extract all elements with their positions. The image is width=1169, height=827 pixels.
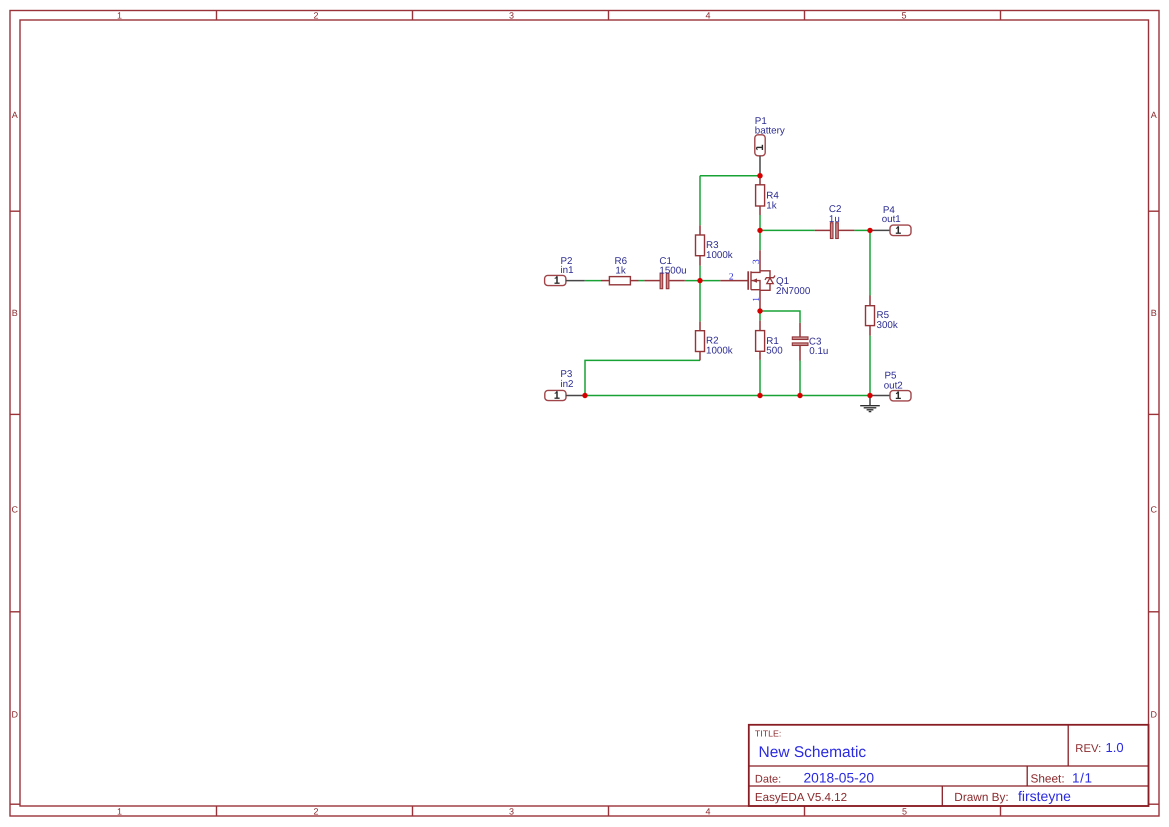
svg-text:in1: in1 xyxy=(561,265,574,276)
capacitor C3 xyxy=(792,323,828,361)
node junction C2/P4/R5 xyxy=(867,228,872,233)
svg-text:4: 4 xyxy=(705,806,710,816)
svg-text:300k: 300k xyxy=(877,320,898,331)
svg-text:B: B xyxy=(12,308,18,318)
svg-text:TITLE:: TITLE: xyxy=(755,729,781,739)
wire xyxy=(799,361,801,396)
resistor R3 xyxy=(696,225,733,265)
svg-text:C: C xyxy=(1150,505,1157,515)
title block xyxy=(749,725,1149,806)
svg-text:1: 1 xyxy=(752,297,762,302)
wire xyxy=(639,280,645,282)
svg-text:D: D xyxy=(1150,710,1157,720)
svg-text:C: C xyxy=(11,505,18,515)
svg-text:1500u: 1500u xyxy=(659,266,686,277)
svg-text:2: 2 xyxy=(313,806,318,816)
resistor R2 xyxy=(696,322,733,361)
svg-text:EasyEDA V5.4.12: EasyEDA V5.4.12 xyxy=(755,791,847,804)
wire net from P1 pin to R4 top and left corner xyxy=(700,175,760,177)
svg-text:500: 500 xyxy=(766,346,783,357)
svg-text:firsteyne: firsteyne xyxy=(1018,788,1071,804)
capacitor C1 xyxy=(644,256,686,289)
wire xyxy=(759,360,761,396)
svg-text:1000k: 1000k xyxy=(706,250,733,261)
svg-text:out1: out1 xyxy=(882,214,901,225)
ground xyxy=(860,396,880,412)
svg-text:B: B xyxy=(1151,308,1157,318)
wire xyxy=(585,280,601,282)
wire xyxy=(685,280,721,282)
node junction P3/rail xyxy=(582,393,587,398)
wire xyxy=(759,311,761,321)
svg-text:Drawn By:: Drawn By: xyxy=(954,790,1008,804)
node junction R5/ground/P5 xyxy=(867,393,872,398)
svg-text:Sheet:: Sheet: xyxy=(1031,772,1065,786)
svg-text:1: 1 xyxy=(117,806,122,816)
frame ruler numbers bottom xyxy=(117,806,907,816)
node junction R4/C2/drain xyxy=(757,228,762,233)
wire xyxy=(759,230,761,250)
wire xyxy=(869,336,871,396)
svg-text:1k: 1k xyxy=(766,201,776,212)
svg-text:3: 3 xyxy=(509,10,514,20)
svg-text:in2: in2 xyxy=(560,379,573,390)
svg-text:2N7000: 2N7000 xyxy=(776,286,811,297)
frame ruler numbers top xyxy=(117,10,907,20)
title block texts xyxy=(755,729,1124,804)
svg-text:3: 3 xyxy=(752,259,762,264)
svg-text:Date:: Date: xyxy=(755,774,781,786)
transistor Q1 2N7000 xyxy=(720,250,811,311)
node junction C1/R3/R2/gate xyxy=(697,278,702,283)
wire xyxy=(760,311,800,323)
wire bottom rail xyxy=(585,395,870,397)
svg-text:New Schematic: New Schematic xyxy=(759,744,867,761)
svg-text:5: 5 xyxy=(902,806,907,816)
frame ruler letters left xyxy=(11,110,18,720)
svg-text:1000k: 1000k xyxy=(706,346,733,357)
svg-text:1/1: 1/1 xyxy=(1072,771,1093,786)
resistor R5 xyxy=(866,296,898,336)
svg-text:2: 2 xyxy=(729,273,734,283)
svg-text:A: A xyxy=(12,110,18,120)
node junction C3/rail xyxy=(797,393,802,398)
svg-text:1u: 1u xyxy=(829,214,840,225)
svg-text:2018-05-20: 2018-05-20 xyxy=(804,771,875,786)
svg-text:1.0: 1.0 xyxy=(1106,740,1124,755)
node junction P1/R4/wire xyxy=(757,173,762,178)
wire xyxy=(854,229,870,231)
wire xyxy=(869,230,871,295)
wire xyxy=(699,176,701,226)
svg-text:4: 4 xyxy=(705,10,710,20)
svg-text:D: D xyxy=(11,710,18,720)
CIRCUIT xyxy=(545,116,911,412)
connector P3 in2 xyxy=(545,369,585,401)
connector P5 out2 xyxy=(870,371,911,401)
svg-text:1k: 1k xyxy=(615,266,625,277)
wire xyxy=(585,360,700,395)
resistor R1 xyxy=(756,321,784,360)
capacitor C2 xyxy=(815,204,855,239)
svg-text:1: 1 xyxy=(117,10,122,20)
svg-text:A: A xyxy=(1151,110,1157,120)
node junction source/R1/C3 xyxy=(757,308,762,313)
frame ruler letters right xyxy=(1150,110,1157,720)
svg-text:3: 3 xyxy=(509,806,514,816)
svg-text:2: 2 xyxy=(313,10,318,20)
svg-text:0.1u: 0.1u xyxy=(809,346,828,357)
wire xyxy=(760,229,815,231)
resistor R6 xyxy=(601,256,639,285)
wire xyxy=(759,215,761,230)
node junction R1/rail xyxy=(757,393,762,398)
connector P2 in1 xyxy=(545,256,585,286)
connector P4 out1 xyxy=(870,205,911,236)
wire xyxy=(699,266,701,322)
resistor R4 xyxy=(756,176,780,215)
svg-text:out2: out2 xyxy=(884,380,903,391)
connector P1 battery xyxy=(755,116,785,176)
svg-text:REV:: REV: xyxy=(1075,743,1101,755)
svg-text:5: 5 xyxy=(901,10,906,20)
